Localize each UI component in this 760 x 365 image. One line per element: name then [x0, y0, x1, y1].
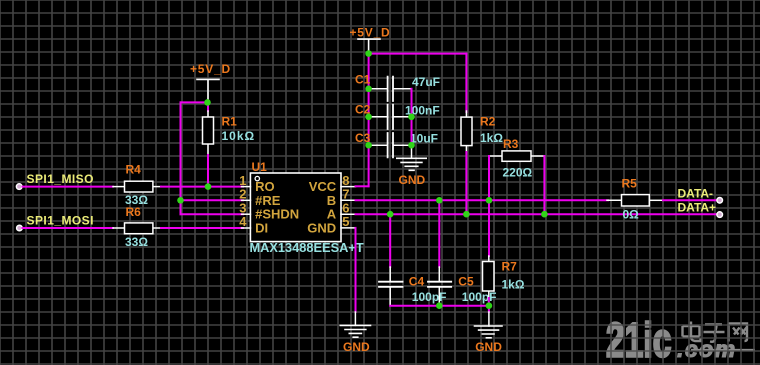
resistor R5 [607, 176, 663, 221]
svg-text:GND: GND [307, 221, 336, 236]
resistor R4 [113, 163, 161, 208]
junction +5V top [365, 50, 372, 57]
wire R6 to pin4 [161, 227, 243, 229]
junction C3 left [365, 142, 372, 149]
junction R3/R7 on B [486, 197, 493, 204]
port DATA- [678, 187, 723, 203]
port SPI1_MOSI [17, 214, 94, 231]
resistor R1 [203, 102, 256, 186]
wire bottom rail [390, 305, 489, 307]
pin 6 A [327, 200, 356, 221]
电 [683, 322, 701, 342]
svg-text:B: B [327, 193, 336, 208]
svg-text:SPI1_MISO: SPI1_MISO [27, 172, 94, 186]
wire MOSI to R6 [23, 227, 114, 229]
pin 7 B [327, 186, 356, 207]
svg-text:R2: R2 [480, 115, 496, 129]
resistor R7 [483, 256, 525, 306]
svg-text:3: 3 [239, 200, 246, 215]
wire A line [356, 213, 720, 215]
junction R2 on A [463, 211, 470, 218]
svg-text:DATA-: DATA- [678, 187, 714, 201]
svg-text:1kΩ: 1kΩ [502, 278, 525, 292]
junction dots layer [177, 50, 548, 309]
ground GND (R7) [475, 312, 503, 354]
svg-text:#SHDN: #SHDN [255, 207, 299, 222]
wire pin5 GND drop [355, 228, 357, 312]
pin 4 DI [239, 214, 268, 235]
capacitor C2 [355, 103, 440, 129]
capacitor C3 [355, 131, 438, 158]
svg-text:A: A [327, 207, 337, 222]
svg-text:R4: R4 [126, 163, 142, 177]
wire B line [356, 199, 609, 201]
svg-text:R1: R1 [222, 114, 238, 128]
resistor R2 [461, 111, 503, 214]
junction R7 bottom [486, 302, 493, 309]
pin 5 GND [307, 214, 355, 236]
junction C4 on A [387, 211, 394, 218]
capacitor C4 [379, 267, 446, 305]
svg-text:#RE: #RE [255, 193, 281, 208]
svg-text:GND: GND [475, 340, 502, 354]
wire R3 left to R7 [488, 156, 490, 256]
watermark 21ic.com logo [606, 312, 755, 365]
svg-text:R5: R5 [622, 176, 638, 190]
wire C5 top [438, 200, 440, 267]
power symbol +5V_D (top) [350, 25, 391, 53]
svg-text:C1: C1 [355, 73, 371, 87]
wire left branch down to pin3 [180, 102, 182, 214]
junction C5 bottom [436, 302, 443, 309]
svg-text:+5V_D: +5V_D [190, 62, 231, 76]
svg-text:33Ω: 33Ω [125, 235, 148, 249]
svg-text:MAX13488EESA+T: MAX13488EESA+T [250, 240, 364, 255]
IC U1 [250, 160, 364, 255]
junction C1 left [365, 86, 372, 93]
svg-text:100pF: 100pF [412, 290, 447, 304]
svg-text:0Ω: 0Ω [623, 207, 640, 221]
ground GND (pin5) [340, 312, 370, 354]
junction C2 right [408, 114, 415, 121]
junction +5V left [204, 99, 211, 106]
svg-text:2: 2 [239, 186, 246, 201]
wire VCC rail down [368, 54, 370, 187]
svg-text:C4: C4 [409, 275, 425, 289]
svg-text:C5: C5 [458, 275, 474, 289]
pin 8 VCC [309, 173, 356, 194]
svg-text:SPI1_MOSI: SPI1_MOSI [27, 214, 94, 228]
网 [729, 324, 748, 342]
resistor R6 [113, 205, 161, 249]
ground GND (caps) [397, 146, 426, 187]
wire R4 to pin1 [161, 186, 243, 188]
wire R3 right down to A [543, 156, 545, 214]
power symbol +5V_D (left) [190, 62, 231, 102]
junction C5 top on B [436, 197, 443, 204]
port SPI1_MISO [16, 172, 94, 190]
svg-text:U1: U1 [252, 160, 268, 174]
svg-text:5: 5 [342, 214, 349, 229]
svg-text:10kΩ: 10kΩ [222, 129, 256, 143]
pin 1 RO [239, 173, 274, 194]
wire R2 drop [465, 54, 467, 112]
capacitor C5 [428, 267, 496, 305]
svg-text:GND: GND [399, 173, 426, 187]
子 [704, 325, 725, 342]
wire #RE branch to pin2 [181, 199, 244, 201]
wire C4 top [389, 214, 391, 267]
svg-text:DATA+: DATA+ [678, 201, 717, 215]
svg-text:+5V_D: +5V_D [350, 25, 391, 39]
junction R1 to RO line [205, 183, 212, 190]
junction R3 right on A [541, 211, 548, 218]
wire R7 GND drop [488, 306, 490, 312]
capacitor C1 [355, 73, 440, 101]
resistor R3 [489, 137, 544, 180]
pin 3 #SHDN [239, 200, 299, 221]
svg-text:R7: R7 [502, 260, 518, 274]
svg-text:R6: R6 [126, 205, 142, 219]
wire #SHDN to pin3 [181, 213, 244, 215]
wire MISO to R4 [23, 186, 114, 188]
junction #RE branch [177, 197, 184, 204]
wire VCC to pin8 [356, 185, 369, 187]
port DATA+ [678, 201, 723, 218]
svg-text:DI: DI [255, 221, 268, 236]
svg-text:220Ω: 220Ω [503, 166, 533, 180]
wire +5V top to R2 [369, 53, 467, 55]
svg-text:100pF: 100pF [462, 290, 497, 304]
wire R5 to DATA- [663, 199, 720, 201]
junction C2 left [365, 114, 372, 121]
svg-text:7: 7 [342, 186, 349, 201]
junction C3 right [408, 142, 415, 149]
wire +5V to left branch [181, 101, 209, 103]
svg-text:GND: GND [343, 340, 370, 354]
svg-text:R3: R3 [503, 137, 519, 151]
pin 2 #RE [239, 186, 280, 207]
svg-text:1kΩ: 1kΩ [480, 131, 503, 145]
svg-text:4: 4 [239, 214, 247, 229]
wire caps right rail [411, 89, 413, 146]
svg-text:47uF: 47uF [412, 75, 440, 89]
